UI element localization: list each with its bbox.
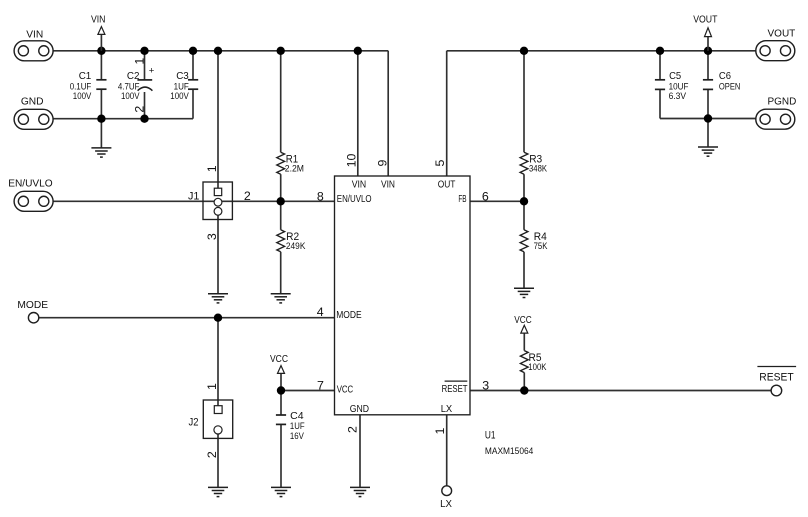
svg-text:C3: C3 bbox=[176, 70, 189, 82]
junction VOUT/C6 bbox=[704, 47, 712, 55]
junction VCC/C4 bbox=[277, 386, 285, 394]
junction VIN/C1 bbox=[97, 47, 105, 55]
wire R4 top bbox=[523, 201, 525, 230]
jumper J2 bbox=[203, 400, 232, 438]
svg-text:2: 2 bbox=[132, 106, 146, 113]
junction FB divider bbox=[520, 197, 528, 205]
svg-text:100V: 100V bbox=[73, 91, 92, 102]
svg-text:RESET: RESET bbox=[442, 384, 468, 395]
svg-text:3: 3 bbox=[205, 233, 219, 240]
wire OUT rail bbox=[447, 50, 756, 52]
svg-text:RESET: RESET bbox=[759, 371, 794, 383]
svg-text:2: 2 bbox=[205, 451, 219, 458]
jumper J1 bbox=[203, 182, 232, 220]
junction PGND bbox=[704, 114, 712, 122]
terminal LX bbox=[442, 486, 452, 496]
svg-text:EN/UVLO: EN/UVLO bbox=[337, 194, 372, 205]
junction GND/C1 bbox=[97, 115, 105, 123]
connector VOUT bbox=[756, 41, 795, 61]
capacitor C1 0.1UF 100V bbox=[96, 79, 106, 81]
svg-text:1: 1 bbox=[205, 165, 219, 172]
resistor R3 348K bbox=[520, 152, 528, 174]
svg-text:C2: C2 bbox=[127, 70, 140, 82]
wire J1 pin 3 to ground bbox=[217, 211, 219, 293]
wire J2 pin 1 bbox=[217, 318, 219, 410]
wire FB row bbox=[470, 200, 524, 202]
svg-text:5: 5 bbox=[433, 160, 447, 167]
wire J2 pin 2 to ground bbox=[217, 430, 219, 488]
svg-text:PGND: PGND bbox=[768, 95, 797, 107]
ground C4 bbox=[271, 486, 291, 488]
svg-text:100V: 100V bbox=[170, 91, 189, 102]
wire C6 top bbox=[707, 51, 709, 80]
svg-text:FB: FB bbox=[458, 194, 466, 205]
svg-text:16V: 16V bbox=[290, 431, 304, 442]
terminal MODE bbox=[28, 313, 38, 323]
svg-text:LX: LX bbox=[440, 498, 452, 510]
ground R2 bbox=[271, 293, 291, 295]
wire VCC to node bbox=[280, 373, 282, 390]
svg-text:MODE: MODE bbox=[17, 299, 48, 311]
terminal RESET bbox=[771, 385, 782, 396]
junction C2 bbox=[140, 47, 148, 55]
svg-text:C5: C5 bbox=[669, 70, 681, 82]
svg-text:10: 10 bbox=[345, 154, 359, 168]
junction C3 bbox=[189, 47, 197, 55]
wire R1 top bbox=[280, 51, 282, 152]
junction EN/UVLO divider bbox=[277, 197, 285, 205]
svg-text:MODE: MODE bbox=[336, 310, 362, 321]
svg-text:VCC: VCC bbox=[514, 314, 532, 326]
wire R3 top bbox=[523, 51, 525, 152]
wire U1 GND pin to ground bbox=[359, 415, 361, 488]
wire R3 bottom bbox=[523, 174, 525, 201]
junction J1 bbox=[214, 47, 222, 55]
svg-text:9: 9 bbox=[375, 160, 389, 167]
svg-text:MAXM15064: MAXM15064 bbox=[485, 446, 533, 457]
power symbol VOUT bbox=[707, 37, 709, 51]
resistor R4 75K bbox=[520, 230, 528, 252]
connector EN/UVLO bbox=[14, 191, 53, 211]
wire C2 bottom bbox=[144, 92, 146, 119]
wire U1 pin 10 VIN bbox=[357, 51, 359, 176]
svg-text:2.2M: 2.2M bbox=[285, 163, 304, 174]
wire U1 pin 9 VIN bbox=[387, 51, 389, 176]
svg-text:VIN: VIN bbox=[91, 13, 106, 25]
capacitor C2 4.7UF 100V (polarized) bbox=[137, 79, 152, 81]
ground J2 bbox=[208, 486, 228, 488]
svg-text:C1: C1 bbox=[79, 70, 92, 82]
svg-text:J1: J1 bbox=[188, 190, 199, 202]
svg-text:4: 4 bbox=[317, 305, 324, 319]
svg-text:249K: 249K bbox=[286, 241, 306, 252]
capacitor C4 1UF 16V bbox=[276, 414, 286, 416]
wire R5 bottom bbox=[523, 373, 525, 391]
svg-text:GND: GND bbox=[350, 404, 369, 415]
power symbol VCC (C4) bbox=[278, 366, 285, 374]
svg-text:GND: GND bbox=[21, 96, 44, 108]
svg-text:VCC: VCC bbox=[270, 353, 288, 365]
svg-text:3: 3 bbox=[482, 379, 489, 393]
svg-text:C6: C6 bbox=[719, 70, 731, 82]
connector VIN bbox=[14, 41, 53, 61]
junction pin10 bbox=[354, 47, 362, 55]
wire C5 top bbox=[659, 51, 661, 80]
svg-text:6: 6 bbox=[482, 189, 489, 203]
wire MODE row bbox=[39, 317, 335, 319]
svg-text:2: 2 bbox=[345, 426, 359, 433]
svg-text:VIN: VIN bbox=[352, 179, 367, 190]
svg-text:75K: 75K bbox=[534, 241, 548, 252]
wire U1 pin 5 OUT bbox=[446, 51, 448, 176]
wire EN/UVLO row bbox=[53, 200, 334, 202]
junction R1 bbox=[277, 47, 285, 55]
ground input bbox=[91, 147, 111, 149]
junction R3 bbox=[520, 47, 528, 55]
wire R2 top bbox=[280, 201, 282, 230]
ground U1 GND pin bbox=[350, 486, 370, 488]
wire C4 top bbox=[280, 391, 282, 416]
wire C4 bottom to ground bbox=[280, 424, 282, 487]
svg-text:VIN: VIN bbox=[26, 28, 43, 40]
wire C5 bottom bbox=[659, 90, 661, 119]
svg-text:J2: J2 bbox=[189, 417, 199, 429]
capacitor C5 10UF 6.3V bbox=[655, 79, 665, 81]
svg-text:100K: 100K bbox=[528, 362, 547, 373]
ground R4 bbox=[514, 287, 534, 289]
wire GND rail bbox=[53, 118, 193, 120]
junction MODE/J2 bbox=[214, 314, 222, 322]
svg-text:2: 2 bbox=[244, 189, 251, 203]
wire VCC to R5 bbox=[523, 332, 525, 351]
svg-text:U1: U1 bbox=[485, 430, 496, 442]
svg-text:1: 1 bbox=[433, 427, 447, 434]
svg-text:348K: 348K bbox=[529, 163, 547, 174]
power symbol VCC (R5) bbox=[521, 325, 528, 333]
op-amp/regulator U1 MAXM15064 bbox=[335, 176, 471, 415]
wire C2 top bbox=[144, 51, 146, 80]
svg-text:LX: LX bbox=[441, 404, 453, 415]
wire C1 bottom to ground bbox=[100, 89, 102, 148]
wire RESET row bbox=[470, 390, 771, 392]
wire PGND rail bbox=[660, 118, 756, 120]
connector GND bbox=[14, 109, 53, 129]
wire C6 bottom to ground bbox=[707, 90, 709, 148]
wire J1 pin 1 bbox=[217, 51, 219, 192]
svg-text:100V: 100V bbox=[121, 91, 140, 102]
wire VIN rail bbox=[53, 50, 388, 52]
svg-text:+: + bbox=[149, 65, 155, 76]
wire U1 LX pin bbox=[446, 415, 448, 486]
ground PGND bbox=[698, 146, 718, 148]
svg-text:1: 1 bbox=[205, 383, 219, 390]
wire R1 bottom bbox=[280, 174, 282, 201]
capacitor C3 1UF 100V bbox=[188, 79, 198, 81]
power symbol VIN bbox=[100, 35, 102, 51]
svg-text:1: 1 bbox=[132, 58, 146, 65]
wire C3 top bbox=[192, 51, 194, 80]
wire R4 bottom to ground bbox=[523, 252, 525, 288]
svg-text:OUT: OUT bbox=[438, 180, 456, 191]
junction C2 bottom bbox=[140, 115, 148, 123]
svg-text:EN/UVLO: EN/UVLO bbox=[8, 177, 53, 189]
wire C3 bottom bbox=[192, 89, 194, 119]
svg-text:OPEN: OPEN bbox=[719, 81, 741, 92]
svg-text:VCC: VCC bbox=[337, 384, 354, 395]
svg-text:6.3V: 6.3V bbox=[669, 91, 687, 102]
wire VCC to U1 pin 7 bbox=[281, 390, 335, 392]
junction C5 bbox=[656, 47, 664, 55]
resistor R5 100K bbox=[520, 351, 528, 373]
connector PGND bbox=[756, 109, 795, 129]
wire R2 bottom to ground bbox=[280, 252, 282, 294]
svg-text:VIN: VIN bbox=[381, 179, 395, 190]
resistor R1 2.2M bbox=[277, 152, 285, 174]
svg-text:8: 8 bbox=[317, 189, 324, 203]
wire C1 top bbox=[100, 51, 102, 80]
capacitor C6 OPEN bbox=[703, 79, 713, 81]
junction RESET/R5 bbox=[520, 386, 528, 394]
svg-text:VOUT: VOUT bbox=[693, 13, 718, 25]
resistor R2 249K bbox=[277, 230, 285, 252]
svg-text:VOUT: VOUT bbox=[768, 27, 796, 39]
ground J1 bbox=[208, 293, 228, 295]
svg-text:7: 7 bbox=[317, 378, 324, 392]
